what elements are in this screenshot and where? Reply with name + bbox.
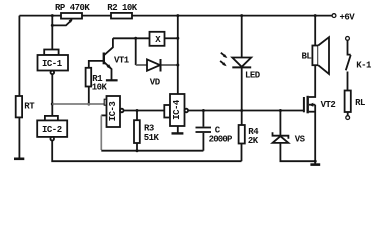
zener VS cathode bar with ticks xyxy=(273,132,289,138)
terminal RL bottom circle xyxy=(346,116,350,120)
wire LED to gate wire xyxy=(241,67,243,110)
resistor RT xyxy=(16,96,22,117)
node VD right xyxy=(176,64,179,67)
svg-text:+6V: +6V xyxy=(340,12,356,22)
transistor VT1 emitter xyxy=(104,62,111,79)
LED cathode bar xyxy=(232,66,251,68)
svg-text:10K: 10K xyxy=(92,82,108,92)
svg-text:VS: VS xyxy=(295,134,306,144)
component IC-2 tab xyxy=(45,116,58,121)
node top rail to IC-4 xyxy=(176,14,179,17)
node X left xyxy=(134,37,137,40)
switch K-1 blade xyxy=(346,55,351,70)
LED arrow 1 xyxy=(221,53,226,57)
wire collector to X xyxy=(113,37,150,39)
svg-text:IC-1: IC-1 xyxy=(42,59,63,69)
wire VD right (gray) xyxy=(162,64,178,66)
node BL top rail xyxy=(314,14,317,17)
resistor RL body xyxy=(345,91,351,113)
svg-text:2K: 2K xyxy=(248,136,259,146)
wire IC-1 out to node xyxy=(51,74,53,104)
wire K-1 upper xyxy=(348,40,351,54)
wire VS top lead xyxy=(279,111,281,136)
diode VD triangle xyxy=(147,59,160,70)
capacitor C plate top xyxy=(196,127,212,129)
ground IC-4 stem xyxy=(177,126,179,133)
capacitor C bottom lead xyxy=(202,133,204,151)
node X right xyxy=(176,37,179,40)
wire VS bottom to ground run xyxy=(280,143,315,161)
LED triangle xyxy=(232,58,251,67)
wire top rail +6V xyxy=(19,15,332,17)
wire IC-4 out to VT2 gate xyxy=(188,110,304,112)
wire VD left drop xyxy=(135,38,137,65)
wire X right xyxy=(165,37,178,39)
transistor VT2 channel bar xyxy=(307,96,309,114)
svg-text:R3: R3 xyxy=(144,124,154,134)
wire K-1 lower xyxy=(347,72,349,91)
transistor VT2 source stub xyxy=(309,111,315,113)
pin IC-2 output bubble xyxy=(50,137,54,141)
wire right rail down to IC-4 xyxy=(177,16,179,94)
svg-text:RP 470K: RP 470K xyxy=(55,3,90,13)
svg-text:RT: RT xyxy=(24,101,35,111)
diode VD cathode bar xyxy=(160,59,162,72)
svg-text:VT1: VT1 xyxy=(114,55,130,65)
svg-text:51K: 51K xyxy=(144,133,160,143)
arrowhead VT2 pointing left xyxy=(309,103,313,107)
component IC-4 box xyxy=(170,94,185,126)
transistor VT2 gate bar xyxy=(303,97,305,112)
svg-text:R2 10K: R2 10K xyxy=(107,3,138,13)
node R1 bottom xyxy=(87,103,90,106)
resistor R3 51K body xyxy=(134,120,140,143)
wire R4 top lead xyxy=(241,111,243,126)
ground VT2 bar xyxy=(310,163,320,166)
wire VD left (gray) xyxy=(136,64,147,66)
bar VT1 emitter terminal xyxy=(106,79,118,81)
svg-text:VD: VD xyxy=(150,77,161,87)
wire R1 bottom xyxy=(88,87,90,105)
node IC-1 out xyxy=(51,103,54,106)
ground IC-4 bar xyxy=(172,132,184,134)
LED arrow 2 xyxy=(220,61,225,65)
resistor R4 2K body xyxy=(239,125,245,144)
component IC-1 box xyxy=(38,55,69,71)
node C top xyxy=(202,109,205,112)
node LED/R4 xyxy=(240,109,243,112)
node R3 top xyxy=(136,109,139,112)
wire wiper link xyxy=(52,20,72,26)
terminal +6V circle xyxy=(332,14,336,18)
transistor VT1 base bar xyxy=(103,53,105,65)
wire BL branch xyxy=(314,16,316,46)
svg-text:LED: LED xyxy=(245,71,261,81)
wire IC-3 out to IC-4 xyxy=(124,110,165,112)
wire node to IC-2 xyxy=(51,104,53,116)
node wiper junction xyxy=(51,24,54,27)
svg-text:2000P: 2000P xyxy=(209,135,233,145)
wire R4 bottom lead xyxy=(241,144,243,162)
wire bottom feedback run xyxy=(101,150,203,152)
component IC-2 box xyxy=(37,120,67,136)
svg-text:RL: RL xyxy=(355,98,365,108)
component IC-3 input tab xyxy=(104,99,107,105)
transistor VT1 collector xyxy=(104,38,113,55)
wire R3 top lead xyxy=(136,111,138,121)
speaker BL box xyxy=(312,46,318,66)
potentiometer RP wiper arrowhead xyxy=(69,19,73,23)
wire IC-1 input drop xyxy=(51,16,53,50)
capacitor C top lead xyxy=(202,111,204,127)
transistor VT2 drain stub xyxy=(309,65,315,97)
zener VS triangle xyxy=(273,136,289,143)
node pot tap on +6V rail xyxy=(51,14,54,17)
arrowhead VT1 emitter xyxy=(107,64,113,70)
wire RT branch vertical xyxy=(18,16,20,158)
node VS top xyxy=(279,109,282,112)
transistor VT2 body arrow line xyxy=(309,104,315,106)
node source/ground xyxy=(314,160,317,163)
component IC-1 tab xyxy=(44,50,58,56)
svg-text:IC-4: IC-4 xyxy=(172,99,182,120)
svg-text:IC-3: IC-3 xyxy=(108,102,118,122)
wire LED branch upper xyxy=(241,16,243,58)
node R3 bottom xyxy=(136,149,139,152)
component IC-3 box xyxy=(107,96,121,127)
wire IC-3 pin2 stub xyxy=(101,114,106,116)
ground RT xyxy=(14,158,24,161)
svg-text:BL: BL xyxy=(302,52,312,62)
capacitor C plate bottom xyxy=(196,131,212,133)
pin IC-4 output bubble xyxy=(185,109,189,113)
svg-text:VT2: VT2 xyxy=(321,100,336,110)
pin IC-3 output bubble xyxy=(120,109,124,113)
resistor R1 10K body xyxy=(86,68,92,87)
component IC-4 input tab xyxy=(164,105,170,118)
wire RL bottom xyxy=(347,112,349,116)
node LED top rail xyxy=(240,14,243,17)
terminal K-1 top circle xyxy=(346,37,350,41)
wire VT2 source down xyxy=(314,105,316,164)
crystal X box xyxy=(150,32,165,46)
potentiometer RP 470K body xyxy=(61,13,82,19)
pin IC-1 output bubble xyxy=(51,71,55,75)
wire R3 bottom lead xyxy=(136,143,138,151)
wire R1 top to VT1 base xyxy=(89,61,103,68)
svg-text:IC-2: IC-2 xyxy=(42,125,62,135)
speaker BL cone xyxy=(318,37,329,74)
wire IC-2 output down and bottom run xyxy=(52,141,241,162)
svg-text:K-1: K-1 xyxy=(356,60,372,70)
resistor R2 10K xyxy=(111,13,132,19)
wire IC1out to IC3 input (gray) xyxy=(52,103,104,105)
wire IC-3 wrap (gray) xyxy=(100,115,102,150)
